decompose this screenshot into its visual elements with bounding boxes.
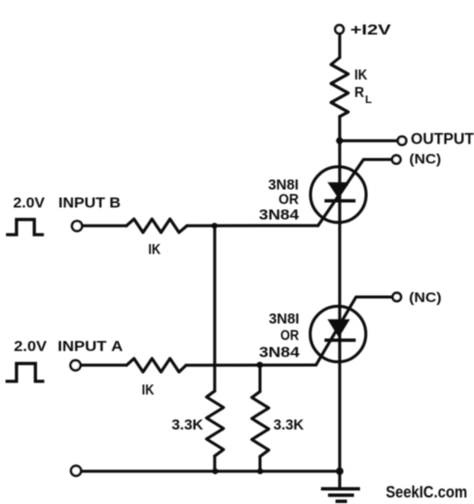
svg-text:3N8I: 3N8I [268, 177, 299, 193]
svg-text:2.0V: 2.0V [14, 339, 47, 355]
svg-text:(NC): (NC) [409, 151, 441, 167]
svg-text:INPUT B: INPUT B [58, 196, 120, 212]
svg-text:3N84: 3N84 [259, 208, 299, 224]
svg-text:OR: OR [279, 192, 300, 208]
svg-text:(NC): (NC) [409, 289, 442, 305]
svg-text:INPUT A: INPUT A [58, 339, 123, 355]
svg-text:3.3K: 3.3K [172, 417, 204, 433]
svg-text:3.3K: 3.3K [273, 417, 304, 433]
svg-text:IK: IK [354, 67, 367, 84]
svg-text:3N8I: 3N8I [269, 311, 300, 327]
svg-text:SeekIC.com: SeekIC.com [386, 484, 468, 502]
svg-text:+I2V: +I2V [350, 23, 391, 39]
svg-text:IK: IK [142, 382, 154, 399]
svg-text:OR: OR [280, 328, 299, 344]
svg-text:L: L [365, 94, 372, 106]
svg-text:2.0V: 2.0V [13, 196, 45, 212]
svg-text:OUTPUT: OUTPUT [411, 131, 474, 148]
svg-text:3N84: 3N84 [259, 345, 300, 361]
svg-text:IK: IK [148, 241, 160, 258]
svg-text:R: R [354, 84, 364, 101]
